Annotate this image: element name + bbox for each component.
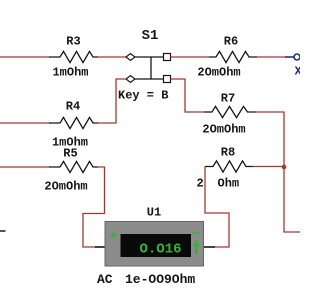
wire R8 left to U1 right terminal [205, 167, 229, 248]
resistor R4 [49, 100, 98, 150]
svg-text:R8: R8 [221, 146, 235, 160]
instrument terminal XMM1 [285, 54, 309, 79]
svg-text:XM: XM [295, 65, 301, 79]
svg-text:2OmOhm: 2OmOhm [202, 123, 245, 137]
svg-text:2OmOhm: 2OmOhm [197, 66, 240, 80]
svg-text:2Ohm: 2Ohm [197, 177, 240, 191]
wire R8 to node A [253, 166, 284, 168]
wire S1 pole2 to R7 [171, 79, 205, 112]
wire S1 pole1 to R6 [171, 56, 210, 58]
multimeter U1 [95, 206, 215, 288]
svg-text:R3: R3 [66, 35, 80, 49]
svg-text:U1: U1 [147, 206, 161, 220]
wire stub left edge [0, 230, 6, 232]
svg-text:O.O16: O.O16 [139, 242, 181, 258]
node A junction [282, 165, 287, 170]
wire R7 to node A [256, 112, 284, 167]
svg-text:1mOhm: 1mOhm [52, 66, 88, 80]
wire R5 to U1 left terminal [83, 167, 105, 247]
svg-text:R5: R5 [63, 147, 77, 161]
wire net2 left edge to R4 [0, 122, 50, 124]
wire net3 left edge to R5 [0, 166, 50, 168]
resistor R6 [197, 35, 257, 80]
resistor R8 [197, 146, 254, 191]
wire node A to right edge [284, 167, 300, 232]
resistor R7 [202, 92, 256, 137]
wire net1 left edge to R3 [0, 56, 50, 58]
svg-text:R7: R7 [221, 92, 235, 106]
wire R3 to S1 pole1 [98, 56, 126, 58]
svg-text:S1: S1 [142, 28, 159, 44]
wire R4 to S1 pole2 [98, 79, 126, 123]
switch S1 [118, 28, 171, 103]
wire R6 to XMM1 [257, 56, 285, 58]
svg-text:Key = B: Key = B [118, 89, 168, 103]
svg-text:R6: R6 [224, 35, 238, 49]
resistor R5 [44, 147, 98, 194]
svg-text:AC1e-OO9Ohm: AC1e-OO9Ohm [97, 272, 195, 287]
svg-text:R4: R4 [66, 100, 80, 114]
svg-text:2OmOhm: 2OmOhm [44, 180, 87, 194]
resistor R3 [49, 35, 98, 80]
